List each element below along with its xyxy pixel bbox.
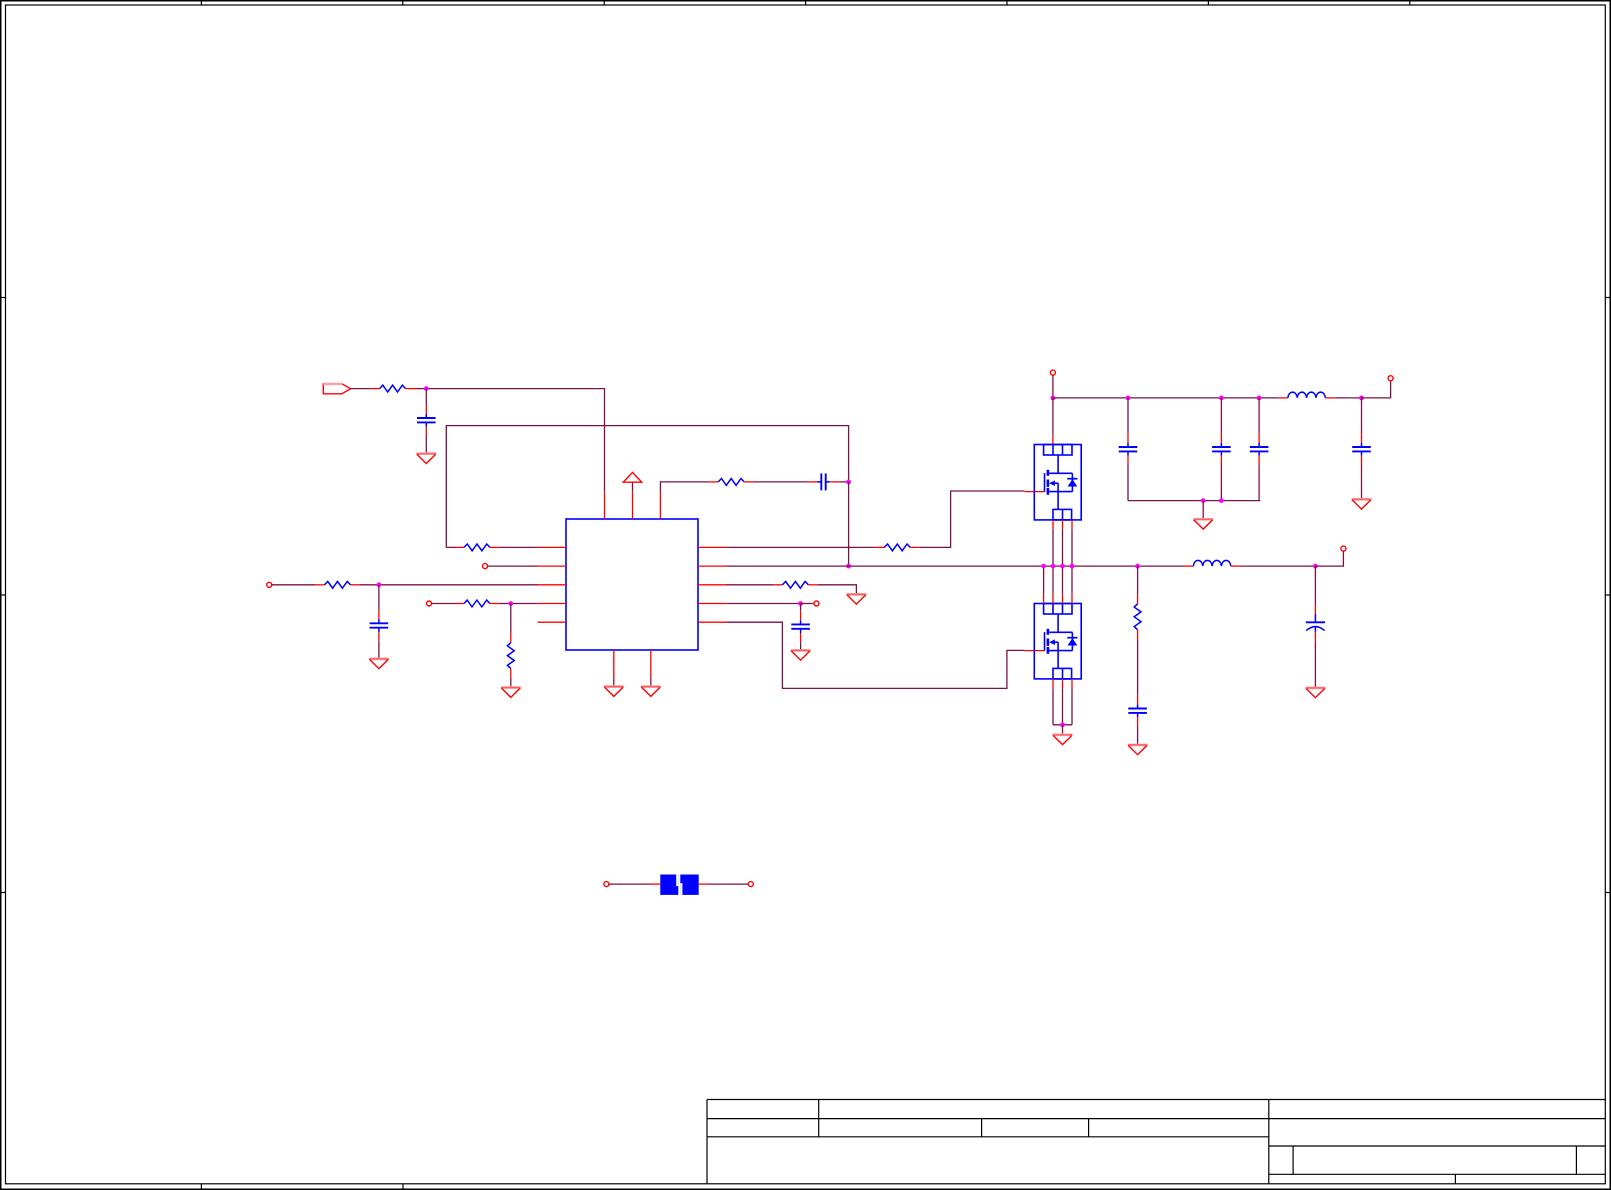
wire VIN to C5 (1127, 398, 1129, 434)
ground GND9 (1352, 499, 1372, 509)
junction SW pin c (1060, 564, 1065, 569)
wire C2 to node BOOT (840, 481, 849, 483)
pin stub C1 top (425, 405, 427, 414)
wire C4 to ground (800, 642, 802, 650)
pin stub R8 right (808, 584, 817, 586)
wire VIN bus (1053, 397, 1279, 399)
IC U1 body (566, 519, 698, 650)
junction node VOUT2 (1313, 564, 1318, 569)
wire node SS to circle (801, 603, 812, 605)
wire node BOOT down to SW row (848, 482, 850, 566)
ground GND7 (791, 650, 811, 660)
wire R9 to C9 (1137, 639, 1139, 695)
pin stub L2 left (1184, 565, 1193, 567)
pin stub C8 top (1361, 433, 1363, 442)
wire R8 to ground (818, 585, 857, 595)
wire L1 to node VOUT1 (1335, 397, 1362, 399)
wire node VOUT2 down to C10 (1314, 566, 1316, 605)
junction node BOOT (846, 480, 851, 485)
pin stub Q2 gate (1025, 650, 1045, 652)
net stub circle JP1 right (748, 882, 753, 887)
resistor R8 (782, 581, 808, 588)
capacitor C4 (791, 620, 810, 633)
ground GND8 (1193, 519, 1213, 529)
pin stub R7 right (910, 546, 919, 548)
wire Q2 source gnd stem (1062, 725, 1064, 735)
net stub circle JP1 left (604, 882, 609, 887)
resistor R7 (884, 544, 910, 551)
pin stub R3 left (709, 481, 718, 483)
wire C8 to ground (1361, 465, 1363, 499)
net stub circle SS (814, 601, 819, 606)
power symbol VCC (623, 472, 641, 482)
junction node VIN-D (1257, 396, 1262, 401)
resistor R4 (325, 581, 351, 588)
pin stub L1 left (1279, 397, 1288, 399)
pin stub R4 right (351, 584, 360, 586)
wire VIN to C8 (1361, 398, 1363, 434)
pin stub R5 left (455, 603, 464, 605)
pin stub C5 bottom (1127, 456, 1129, 465)
net stub circle pin4 (427, 601, 432, 606)
wire circle to R5 (432, 603, 455, 605)
wire R7 to Q1 gate (920, 491, 1025, 547)
net stub circle VOUT2 (1341, 546, 1346, 551)
wire VIN down to Q1 drain (1052, 398, 1054, 435)
capacitor C2 (817, 473, 830, 490)
wire U1 gnd pin B1 (613, 678, 615, 686)
pin stub L2 right (1231, 565, 1240, 567)
IC U1 pins (538, 491, 727, 678)
wire loop R2-left up and across to node BOOT (446, 426, 848, 548)
wire VCC stem (632, 482, 634, 491)
pin stub R9 bottom (1137, 630, 1139, 639)
wire node VOUT1 to output stub (1362, 381, 1391, 398)
net stub circle pin2 (483, 564, 488, 569)
pin stub C7 top (1258, 433, 1260, 442)
pin stub R7 left (875, 546, 884, 548)
wire U1 pin R4 to node SS (727, 603, 801, 605)
wire C7 to gnd rail (1258, 465, 1260, 501)
pin stub Q1 gate (1025, 491, 1045, 493)
wire circle to U1 pin2 (488, 565, 538, 567)
wire C9 to ground (1137, 727, 1139, 745)
wire node FB to U1 pin3 (379, 584, 538, 586)
wire input gnd rail (1128, 500, 1260, 502)
wire node VOUT2 to output stub (1315, 551, 1343, 566)
net stub circle VOUT1 (1388, 376, 1393, 381)
capacitor C5 (1119, 443, 1138, 456)
wire C6 to gnd rail (1220, 465, 1222, 501)
pin stub R1 left (370, 388, 379, 390)
wire VIN circle down (1052, 375, 1054, 398)
pin stub C6 top (1220, 433, 1222, 442)
junction SW pin a (1041, 564, 1046, 569)
wire C10 to ground (1314, 641, 1316, 688)
pin stub C9 top (1137, 695, 1139, 704)
ground GND1 (417, 454, 437, 464)
wire C3 to ground (378, 641, 380, 659)
pin stub C3 bottom (378, 632, 380, 641)
transistor Q1 high-side MOSFET (1034, 445, 1081, 520)
pin stub Q1 drain (1052, 435, 1054, 444)
junction node gnd rail A (1201, 498, 1206, 503)
capacitor C7 (1250, 443, 1269, 456)
pin stub C10 top (1314, 605, 1316, 614)
wire U1 gnd pin B2 (650, 678, 652, 686)
inductor L1 (1288, 392, 1325, 398)
pin stub C4 bottom (800, 633, 802, 642)
title block (707, 1100, 1605, 1184)
pin stub R1 right (406, 388, 417, 390)
pin stub R6 top (510, 633, 512, 642)
ground GND3 (501, 688, 521, 698)
port J1 input tag (323, 384, 350, 394)
pin stub C9 bottom (1137, 717, 1139, 726)
wire node SS down to C4 (800, 604, 802, 611)
wire node EN down to C1 (425, 389, 427, 405)
wire node RT to U1 pin4 (511, 603, 538, 605)
capacitor C9 (1128, 704, 1147, 717)
pin stub R4 left (315, 584, 324, 586)
wire R1 to node EN (417, 388, 426, 390)
pin stub R9 top (1137, 594, 1139, 603)
capacitor C3 (370, 619, 389, 632)
junction node VIN-A (1051, 396, 1056, 401)
pin stub R6 bottom (510, 669, 512, 678)
pin stub C2 left (808, 481, 817, 483)
resistor R5 (464, 600, 490, 607)
resistor R1 (380, 385, 406, 392)
junction node SW-B (1135, 564, 1140, 569)
pin stub R5 right (490, 603, 499, 605)
junction node VIN-B (1126, 396, 1131, 401)
resistor R6 vertical (507, 643, 514, 669)
wire U1 pin R1 to R7 (727, 546, 875, 548)
pin stub R3 right (744, 481, 753, 483)
capacitor C6 (1212, 443, 1231, 456)
pin stub C1 bottom (425, 427, 427, 436)
resistor R9 vertical (1134, 604, 1141, 630)
wire VIN to C7 (1258, 398, 1260, 434)
junction Q2 source (1060, 722, 1065, 727)
wire R3 to C2 (754, 481, 808, 483)
wire JP1 left (609, 883, 651, 885)
ground GND6 (847, 594, 867, 604)
pin stub C10 bottom (1314, 632, 1316, 641)
junction node RT (508, 601, 513, 606)
pin stub C7 bottom (1258, 456, 1260, 465)
wire SW row U1 to L2 (727, 565, 1185, 567)
resistor R3 (718, 479, 744, 486)
junction node VOUT1 (1359, 396, 1364, 401)
pin stub C2 right (830, 481, 839, 483)
pin stub R2 left (455, 546, 464, 548)
capacitor C8 (1352, 443, 1371, 456)
wire Q1 source pins to SW bus (1053, 520, 1072, 566)
capacitor C10 polarized (1306, 614, 1325, 632)
wire port to R1 (351, 388, 371, 390)
pin stub R8 left (773, 584, 782, 586)
junction node FB (377, 582, 382, 587)
pin stub L1 right (1325, 397, 1334, 399)
ground GND5 (641, 687, 661, 697)
capacitor C1 (417, 414, 436, 427)
inductor L2 (1193, 560, 1230, 566)
transistor Q2 low-side MOSFET (1034, 604, 1081, 679)
wire L2 to node VOUT2 (1240, 565, 1315, 567)
wire C5 to gnd rail (1127, 465, 1129, 501)
junction node gnd rail B (1219, 498, 1224, 503)
wire node RT down to R6 (510, 604, 512, 634)
pin stub C5 top (1127, 433, 1129, 442)
wire gnd rail stem (1202, 501, 1204, 520)
wire Q2 source pins to ground rail (1053, 679, 1072, 725)
net stub circle pin3 (267, 582, 272, 587)
wire Q2 drain pins from SW bus (1044, 566, 1072, 603)
wire node FB down to C3 (378, 585, 380, 610)
pin stub C4 top (800, 611, 802, 620)
pin stub C3 top (378, 610, 380, 619)
wire R6 to ground (510, 678, 512, 688)
wire JP1 right (708, 883, 748, 885)
wire R5 to node RT (499, 603, 511, 605)
wire R4 to node FB (360, 584, 379, 586)
wire circle to R4 (272, 584, 315, 586)
ground GND4 (604, 687, 624, 697)
ground GND12 (1306, 688, 1326, 698)
resistor R2 (464, 544, 490, 551)
ground GND2 (369, 659, 389, 669)
wire C1 to ground (425, 436, 427, 454)
junction node SS (798, 601, 803, 606)
wire U1 comp pin to R3 (660, 482, 708, 491)
jumper JP1 (660, 875, 698, 895)
ground GND11 (1128, 745, 1148, 755)
junction node EN (424, 386, 429, 391)
junction SW pin b (1051, 564, 1056, 569)
pin stub R2 right (490, 546, 499, 548)
pin stub C6 bottom (1220, 456, 1222, 465)
pin stub JP1 right (699, 883, 708, 885)
pin stub JP1 left (651, 883, 660, 885)
junction SW pin d (1070, 564, 1075, 569)
wire U1 pin R3 to R8 (727, 584, 774, 586)
pin stub SS circle (812, 603, 815, 605)
wire U1 pin R5 to Q2 gate (727, 622, 1025, 688)
junction node VIN-C (1219, 396, 1224, 401)
net stub circle VIN (1050, 370, 1055, 375)
wire R2 to U1 pin1 (499, 546, 537, 548)
wire node EN to U1 pin EN (426, 389, 604, 491)
pin stub C8 bottom (1361, 456, 1363, 465)
junction node SW-A (846, 564, 851, 569)
wire VIN to C6 (1220, 398, 1222, 434)
wire node SW-B down to R9 (1137, 566, 1139, 594)
ground GND10 (1053, 735, 1073, 745)
